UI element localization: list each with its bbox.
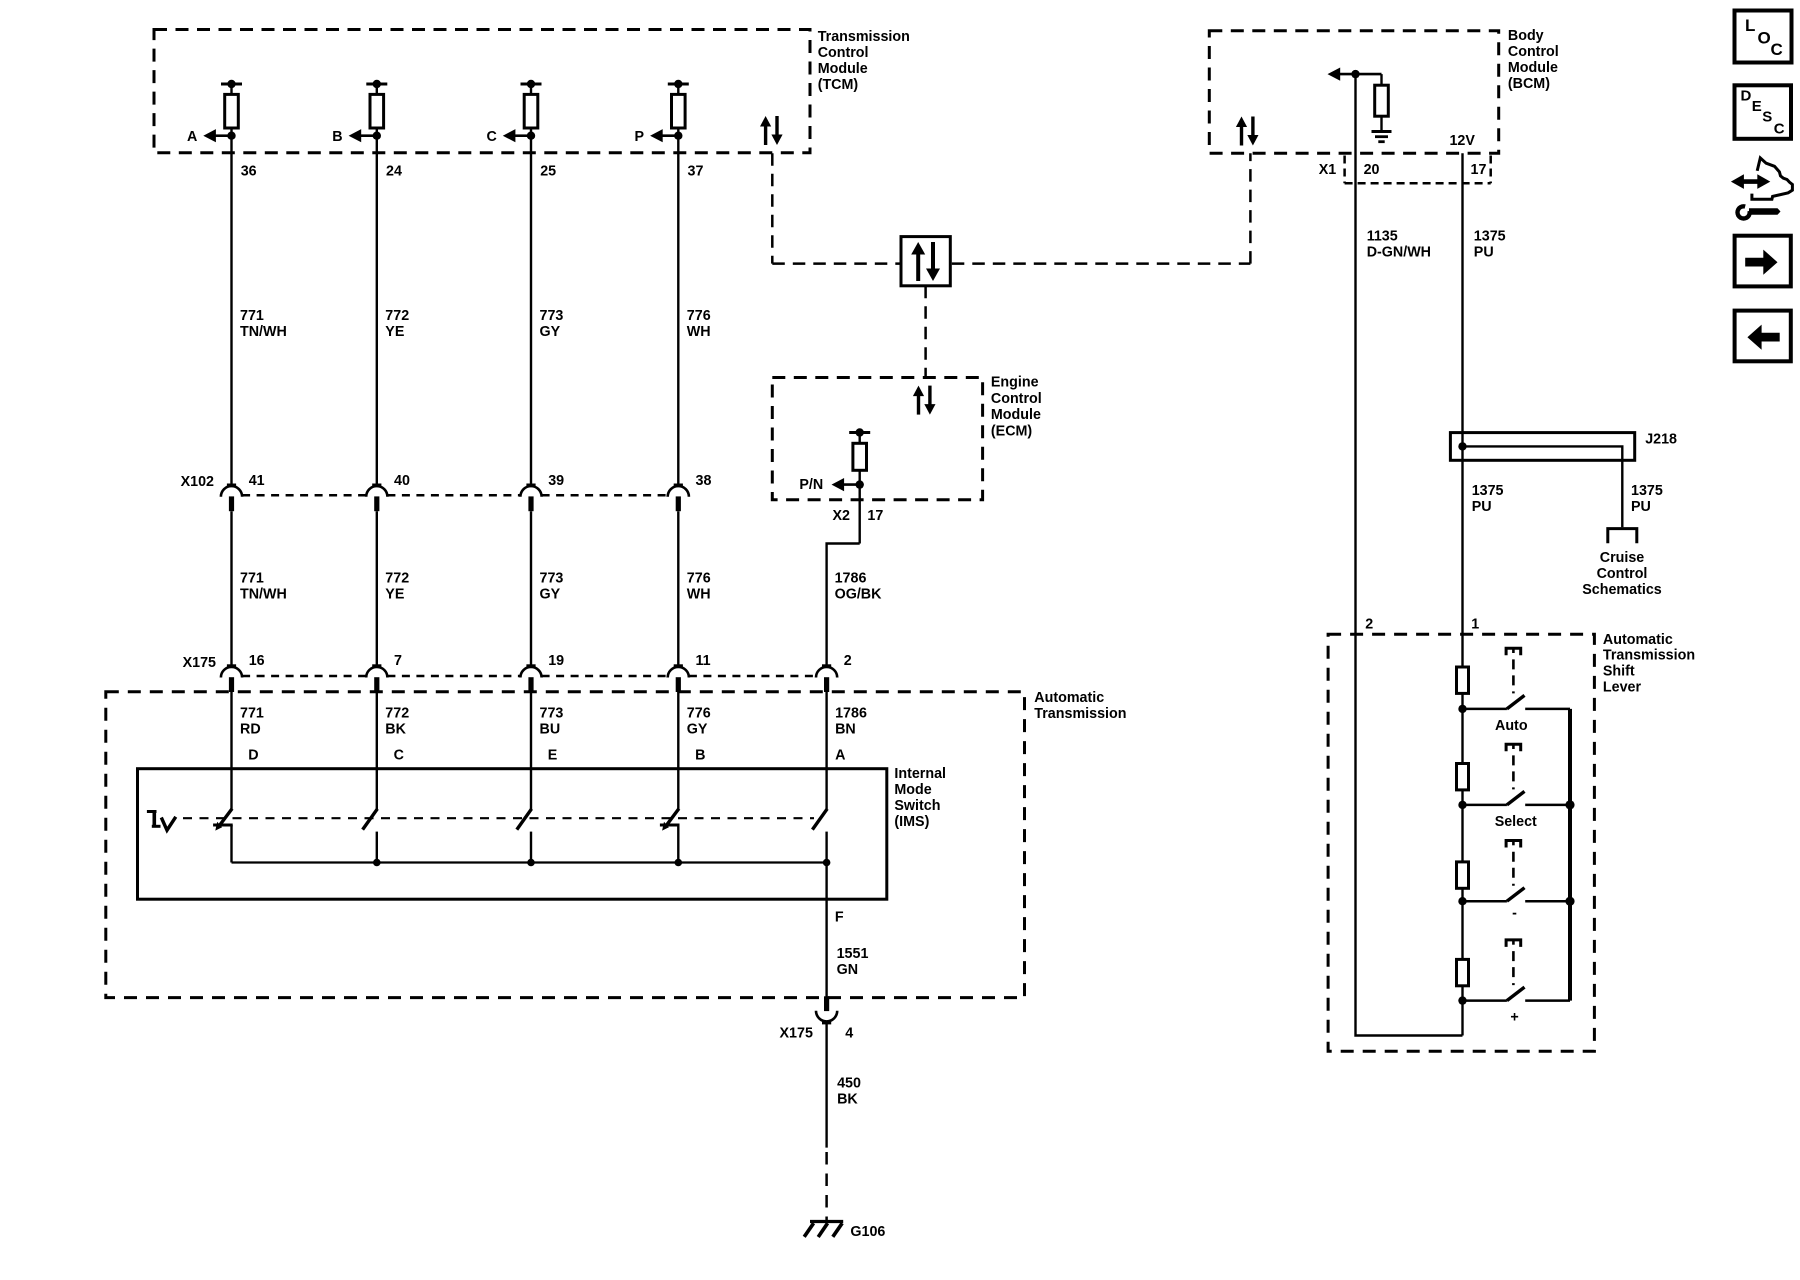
svg-text:1786: 1786 bbox=[835, 571, 867, 587]
icon DESC box bbox=[1735, 85, 1792, 139]
svg-text:L: L bbox=[1745, 16, 1755, 35]
svg-text:A: A bbox=[187, 129, 197, 145]
svg-text:BU: BU bbox=[540, 722, 561, 738]
wire TCM output P supply stem bbox=[677, 84, 679, 94]
wire 1375 PU upper bbox=[1461, 153, 1463, 667]
module box Automatic Transmission bbox=[106, 692, 1025, 998]
supply bar TCM output C bbox=[521, 83, 542, 86]
wire ladder segment 4 bbox=[1461, 986, 1463, 1036]
svg-text:X102: X102 bbox=[181, 474, 214, 490]
svg-text:C: C bbox=[486, 129, 496, 145]
label circuit 776 GY lower bbox=[687, 706, 711, 738]
label Cruise Control Schematics bbox=[1582, 550, 1662, 598]
supply bar ECM P/N bbox=[849, 431, 870, 434]
resistor TCM output A bbox=[225, 94, 239, 128]
wire TCM output C supply stem bbox=[530, 84, 532, 94]
resistor ladder R4 bbox=[1457, 959, 1469, 985]
svg-text:Schematics: Schematics bbox=[1582, 582, 1662, 598]
wire serial data link horizontal right bbox=[952, 262, 1251, 265]
wire ladder segment 2 bbox=[1461, 790, 1463, 805]
svg-text:1375: 1375 bbox=[1474, 229, 1506, 245]
svg-text:D: D bbox=[248, 747, 258, 763]
svg-text:Control: Control bbox=[1597, 566, 1648, 582]
wire shift lever right bus bbox=[1568, 709, 1572, 1001]
node bus junction bbox=[675, 859, 683, 867]
svg-text:771: 771 bbox=[240, 571, 264, 587]
label circuit 1375 PU mid-right bbox=[1631, 483, 1663, 515]
node bus tap 3 bbox=[1565, 897, 1574, 906]
svg-text:771: 771 bbox=[240, 308, 264, 324]
node ladder tap 1 bbox=[1458, 705, 1466, 713]
svg-text:X2: X2 bbox=[833, 508, 851, 524]
svg-text:20: 20 bbox=[1364, 162, 1380, 178]
svg-text:P/N: P/N bbox=[799, 477, 823, 493]
supply bar TCM output A bbox=[221, 83, 242, 86]
svg-text:776: 776 bbox=[687, 706, 711, 722]
svg-text:12V: 12V bbox=[1449, 133, 1475, 149]
label circuit 773 GY upper bbox=[540, 308, 564, 340]
switch IMS B bbox=[660, 809, 680, 863]
svg-text:4: 4 bbox=[845, 1025, 853, 1041]
label circuit 771 TN/WH mid bbox=[240, 571, 287, 603]
node P/N junction bbox=[856, 480, 864, 488]
svg-text:D-GN/WH: D-GN/WH bbox=[1367, 245, 1431, 261]
IMS common contact symbol bbox=[147, 810, 176, 830]
resistor TCM output B bbox=[370, 94, 384, 128]
svg-text:WH: WH bbox=[687, 587, 711, 603]
wire TCM A vertical bbox=[230, 128, 232, 484]
svg-text:RD: RD bbox=[240, 722, 261, 738]
svg-text:2: 2 bbox=[1365, 617, 1373, 633]
svg-text:16: 16 bbox=[249, 653, 265, 669]
switch IMS C bbox=[363, 809, 378, 863]
connector row X102 bbox=[242, 494, 668, 497]
svg-text:+: + bbox=[1510, 1009, 1518, 1025]
connector X1 outline bbox=[1345, 156, 1491, 184]
wire serial data TCM dashed bbox=[771, 153, 774, 263]
switch IMS E bbox=[517, 809, 532, 863]
svg-text:TN/WH: TN/WH bbox=[240, 324, 287, 340]
svg-text:J218: J218 bbox=[1645, 432, 1677, 448]
connector X175 pin 7 bbox=[366, 666, 387, 692]
svg-text:776: 776 bbox=[687, 308, 711, 324]
svg-text:38: 38 bbox=[696, 473, 712, 489]
svg-text:772: 772 bbox=[385, 706, 409, 722]
svg-text:24: 24 bbox=[386, 164, 402, 180]
svg-text:Shift: Shift bbox=[1603, 664, 1635, 680]
svg-text:X1: X1 bbox=[1319, 162, 1337, 178]
svg-text:776: 776 bbox=[687, 571, 711, 587]
svg-text:1375: 1375 bbox=[1631, 483, 1663, 499]
node ladder tap 2 bbox=[1458, 801, 1466, 809]
data link connector box bbox=[901, 237, 950, 286]
svg-text:(BCM): (BCM) bbox=[1508, 76, 1550, 92]
connector X102 pin 38 bbox=[668, 485, 689, 511]
label IMS bbox=[894, 766, 946, 830]
label circuit 772 YE upper bbox=[385, 308, 409, 340]
svg-text:Engine: Engine bbox=[991, 375, 1039, 391]
svg-text:Body: Body bbox=[1508, 28, 1544, 44]
svg-text:(TCM): (TCM) bbox=[818, 77, 859, 93]
svg-text:37: 37 bbox=[688, 164, 704, 180]
resistor TCM output C bbox=[524, 94, 538, 128]
resistor ladder R2 bbox=[1457, 764, 1469, 790]
switch shift plus bbox=[1463, 987, 1571, 1001]
ground G106 bbox=[804, 1222, 843, 1238]
svg-text:Internal: Internal bbox=[894, 766, 946, 782]
label circuit 773 BU lower bbox=[540, 706, 564, 738]
wire ground lead dashed bbox=[825, 1152, 828, 1222]
node J218 junction bbox=[1458, 442, 1466, 450]
svg-text:BN: BN bbox=[835, 722, 856, 738]
svg-text:Transmission: Transmission bbox=[1034, 706, 1126, 722]
connector X175 pin 19 bbox=[520, 666, 541, 692]
mechanical link plus bbox=[1506, 940, 1521, 985]
svg-text:1551: 1551 bbox=[837, 946, 869, 962]
label TCM bbox=[818, 29, 910, 93]
wire 771 TN/WH mid segment bbox=[230, 511, 232, 666]
svg-text:E: E bbox=[548, 747, 558, 763]
node bus junction bbox=[527, 859, 535, 867]
svg-text:Automatic: Automatic bbox=[1034, 690, 1104, 706]
svg-text:17: 17 bbox=[867, 508, 883, 524]
serial data arrows bbox=[1236, 117, 1259, 146]
wire 772 BK into transmission bbox=[376, 692, 378, 809]
mechanical link minus bbox=[1506, 841, 1521, 886]
svg-text:Switch: Switch bbox=[894, 798, 940, 814]
svg-text:(IMS): (IMS) bbox=[894, 814, 929, 830]
svg-text:772: 772 bbox=[385, 571, 409, 587]
svg-text:773: 773 bbox=[540, 571, 564, 587]
svg-text:Lever: Lever bbox=[1603, 680, 1642, 696]
wire 776 WH mid segment bbox=[677, 511, 679, 666]
label circuit 450 BK bbox=[837, 1076, 861, 1108]
label circuit 771 TN/WH upper bbox=[240, 308, 287, 340]
wire 773 BU into transmission bbox=[530, 692, 532, 809]
svg-text:WH: WH bbox=[687, 324, 711, 340]
connector X175 pin 11 bbox=[668, 666, 689, 692]
wire serial data link horizontal left bbox=[772, 262, 899, 265]
resistor ladder R3 bbox=[1457, 862, 1469, 888]
label Automatic Transmission bbox=[1034, 690, 1126, 722]
node B junction bbox=[373, 132, 381, 140]
node ladder tap 3 bbox=[1458, 897, 1466, 905]
svg-text:YE: YE bbox=[385, 587, 404, 603]
IMS wiper dashed line bbox=[183, 817, 814, 819]
wire F output bbox=[825, 863, 827, 1000]
arrow signal A bbox=[203, 129, 231, 142]
svg-text:1: 1 bbox=[1471, 617, 1479, 633]
serial data arrows bbox=[911, 242, 940, 281]
node ladder tap 4 bbox=[1458, 996, 1466, 1004]
svg-text:40: 40 bbox=[394, 473, 410, 489]
svg-text:B: B bbox=[695, 747, 705, 763]
wire 450 BK bbox=[825, 1023, 827, 1147]
svg-text:Module: Module bbox=[1508, 60, 1558, 76]
supply bar TCM output P bbox=[668, 83, 689, 86]
wire 1135 D-GN/WH bbox=[1354, 74, 1356, 634]
svg-text:36: 36 bbox=[241, 164, 257, 180]
svg-text:450: 450 bbox=[837, 1076, 861, 1092]
label BCM bbox=[1508, 28, 1559, 92]
ground BCM internal bbox=[1372, 132, 1392, 142]
svg-text:C: C bbox=[394, 747, 404, 763]
wire ECM P/N vertical bbox=[859, 470, 861, 543]
svg-text:PU: PU bbox=[1631, 499, 1651, 515]
mechanical link Select bbox=[1506, 744, 1521, 789]
wire TCM C vertical bbox=[530, 128, 532, 484]
svg-text:BK: BK bbox=[837, 1092, 858, 1108]
svg-text:GN: GN bbox=[837, 962, 858, 978]
svg-text:PU: PU bbox=[1474, 245, 1494, 261]
resistor ECM P/N bbox=[853, 443, 867, 470]
arrow signal C bbox=[503, 129, 531, 142]
label circuit 1551 GN bbox=[837, 946, 869, 978]
label circuit 1786 BN lower bbox=[835, 706, 867, 738]
mechanical link Auto bbox=[1506, 648, 1521, 693]
node bus junction bbox=[373, 859, 381, 867]
svg-text:X175: X175 bbox=[780, 1025, 813, 1041]
svg-text:(ECM): (ECM) bbox=[991, 424, 1033, 440]
svg-text:E: E bbox=[1752, 98, 1762, 115]
svg-text:F: F bbox=[835, 910, 844, 926]
label circuit 773 GY mid bbox=[540, 571, 564, 603]
svg-text:X175: X175 bbox=[183, 655, 216, 671]
connector X102 pin 41 bbox=[221, 485, 242, 511]
arrow signal B bbox=[349, 129, 377, 142]
svg-text:Module: Module bbox=[991, 407, 1041, 423]
wire serial data BCM dashed bbox=[1249, 153, 1252, 263]
module box BCM (Body Control Module) bbox=[1209, 31, 1498, 154]
svg-text:773: 773 bbox=[540, 308, 564, 324]
svg-text:O: O bbox=[1758, 28, 1771, 47]
svg-text:Mode: Mode bbox=[894, 782, 931, 798]
connector X175 pin 2 bbox=[816, 666, 837, 692]
svg-text:B: B bbox=[332, 129, 342, 145]
svg-text:17: 17 bbox=[1471, 162, 1487, 178]
connector X175 pin 16 bbox=[221, 666, 242, 692]
label circuit 772 YE mid bbox=[385, 571, 409, 603]
wire 773 GY mid segment bbox=[530, 511, 532, 666]
resistor TCM output P bbox=[672, 94, 686, 128]
svg-text:41: 41 bbox=[249, 473, 265, 489]
switch shift Select bbox=[1463, 791, 1571, 805]
arrow signal P bbox=[650, 129, 678, 142]
wire ECM P/N supply stem bbox=[859, 433, 861, 444]
svg-text:11: 11 bbox=[696, 653, 711, 669]
svg-text:Automatic: Automatic bbox=[1603, 632, 1673, 648]
wire ladder segment 1 bbox=[1461, 693, 1463, 709]
node BCM junction bbox=[1351, 70, 1359, 78]
svg-text:Select: Select bbox=[1495, 814, 1537, 830]
svg-text:7: 7 bbox=[394, 653, 402, 669]
label circuit 1135 D-GN/WH bbox=[1367, 229, 1431, 261]
svg-text:GY: GY bbox=[540, 587, 561, 603]
node bus tap 2 bbox=[1565, 800, 1574, 809]
svg-text:G106: G106 bbox=[850, 1224, 885, 1240]
svg-text:Cruise: Cruise bbox=[1600, 550, 1645, 566]
label circuit 1375 PU mid-left bbox=[1472, 483, 1504, 515]
connector X175 pin 4 bbox=[816, 996, 837, 1023]
svg-text:P: P bbox=[635, 129, 645, 145]
svg-text:39: 39 bbox=[548, 473, 564, 489]
svg-text:S: S bbox=[1762, 109, 1772, 126]
svg-text:GY: GY bbox=[687, 722, 708, 738]
switch IMS D bbox=[213, 809, 233, 863]
icon schematic reference (arrow outline and wrench) bbox=[1731, 158, 1793, 221]
svg-text:Control: Control bbox=[818, 45, 869, 61]
svg-text:2: 2 bbox=[844, 653, 852, 669]
svg-text:1786: 1786 bbox=[835, 706, 867, 722]
wire TCM P vertical bbox=[677, 128, 679, 484]
icon LOC box bbox=[1735, 11, 1792, 63]
svg-text:BK: BK bbox=[385, 722, 406, 738]
switch shift Auto bbox=[1463, 695, 1571, 709]
svg-text:772: 772 bbox=[385, 308, 409, 324]
connector X102 pin 40 bbox=[366, 485, 387, 511]
switch box IMS (Internal Mode Switch) bbox=[138, 769, 887, 900]
svg-text:D: D bbox=[1741, 88, 1752, 105]
wire 771 RD into transmission bbox=[230, 692, 232, 809]
icon forward arrow box bbox=[1735, 236, 1791, 287]
svg-text:GY: GY bbox=[540, 324, 561, 340]
label circuit 1375 PU upper bbox=[1474, 229, 1506, 261]
svg-text:OG/BK: OG/BK bbox=[835, 587, 883, 603]
label circuit 776 WH upper bbox=[687, 308, 711, 340]
svg-text:Control: Control bbox=[991, 391, 1042, 407]
svg-text:-: - bbox=[1512, 905, 1517, 921]
svg-text:1135: 1135 bbox=[1367, 229, 1398, 245]
serial data arrows bbox=[913, 386, 936, 415]
wire TCM output B supply stem bbox=[376, 84, 378, 94]
label circuit 1786 OG/BK bbox=[835, 571, 883, 603]
label circuit 776 WH mid bbox=[687, 571, 711, 603]
svg-text:Module: Module bbox=[818, 61, 868, 77]
wire 776 GY into transmission bbox=[677, 692, 679, 809]
switch box Automatic Transmission Shift Lever bbox=[1328, 634, 1594, 1051]
resistor BCM pull-up bbox=[1375, 85, 1389, 116]
svg-text:C: C bbox=[1774, 120, 1785, 137]
switch IMS A bbox=[812, 809, 827, 863]
node C junction bbox=[527, 132, 535, 140]
module box ECM (Engine Control Module) bbox=[772, 378, 982, 500]
connector X102 pin 39 bbox=[520, 485, 541, 511]
wire resistor to ground bbox=[1380, 116, 1382, 130]
wire 772 YE mid segment bbox=[376, 511, 378, 666]
svg-text:19: 19 bbox=[548, 653, 564, 669]
connector row X175 bbox=[242, 675, 816, 678]
switch shift minus bbox=[1463, 888, 1571, 902]
svg-text:Transmission: Transmission bbox=[818, 29, 910, 45]
svg-text:YE: YE bbox=[385, 324, 404, 340]
svg-text:Transmission: Transmission bbox=[1603, 648, 1695, 664]
wire serial data ECM dashed bbox=[924, 286, 927, 378]
wire to BCM resistor bbox=[1380, 74, 1382, 85]
wire 1786 jog bbox=[827, 544, 860, 666]
arrow signal P/N bbox=[832, 478, 860, 491]
svg-text:A: A bbox=[835, 747, 845, 763]
supply bar TCM output B bbox=[366, 83, 387, 86]
svg-text:773: 773 bbox=[540, 706, 564, 722]
label ECM bbox=[991, 375, 1042, 440]
resistor ladder R1 bbox=[1457, 667, 1469, 693]
arrow signal BCM feed bbox=[1328, 68, 1382, 81]
wire IMS common bus bbox=[232, 861, 827, 863]
svg-text:C: C bbox=[1771, 40, 1783, 59]
wire TCM output A supply stem bbox=[230, 84, 232, 94]
wire J218 branch bbox=[1463, 446, 1623, 527]
wire 1786 BN into transmission bbox=[825, 692, 827, 809]
node A junction bbox=[227, 132, 235, 140]
off-page connector to cruise control bbox=[1608, 529, 1637, 544]
svg-text:Auto: Auto bbox=[1495, 718, 1528, 734]
serial data arrows bbox=[760, 116, 783, 145]
node P junction bbox=[674, 132, 682, 140]
label circuit 772 BK lower bbox=[385, 706, 409, 738]
label Automatic Transmission Shift Lever bbox=[1603, 632, 1695, 696]
wire TCM B vertical bbox=[376, 128, 378, 484]
svg-text:TN/WH: TN/WH bbox=[240, 587, 287, 603]
module box TCM (Transmission Control Module) bbox=[154, 30, 810, 153]
svg-text:771: 771 bbox=[240, 706, 264, 722]
svg-text:25: 25 bbox=[540, 164, 556, 180]
splice pack J218 bbox=[1450, 433, 1634, 461]
svg-text:PU: PU bbox=[1472, 499, 1492, 515]
label circuit 771 RD lower bbox=[240, 706, 264, 738]
node bus junction bbox=[823, 859, 831, 867]
svg-text:1375: 1375 bbox=[1472, 483, 1504, 499]
svg-text:Control: Control bbox=[1508, 44, 1559, 60]
wire shift lever return bbox=[1356, 634, 1463, 1035]
icon back arrow box bbox=[1735, 311, 1791, 362]
wire ladder segment 3 bbox=[1461, 888, 1463, 901]
